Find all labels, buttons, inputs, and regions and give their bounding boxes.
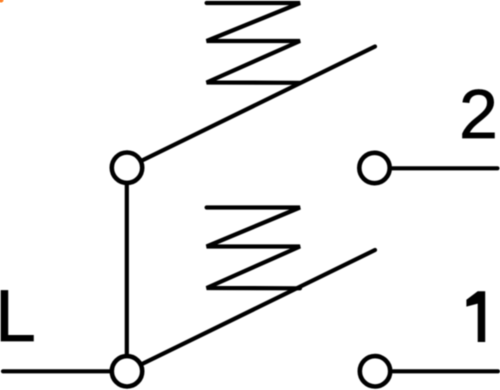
label 1 (466, 291, 485, 342)
wire vertical between nodes (125, 185, 129, 354)
spring lower (207, 208, 300, 289)
terminal 1 circle (360, 356, 390, 386)
label 2 (459, 79, 498, 149)
wire L terminal lead (3, 369, 110, 373)
label L (0, 279, 36, 353)
stray orange corner mark (0, 0, 4, 3)
node upper (pole 2 pivot) (112, 153, 142, 183)
node bottom (common L node) (112, 356, 142, 386)
switch lever pole 1 (141, 250, 375, 365)
wire terminal 2 lead (392, 166, 498, 170)
terminal 2 circle (359, 153, 389, 183)
wire terminal 1 lead (393, 369, 498, 373)
spring upper (207, 3, 300, 83)
switch lever pole 2 (141, 47, 375, 162)
